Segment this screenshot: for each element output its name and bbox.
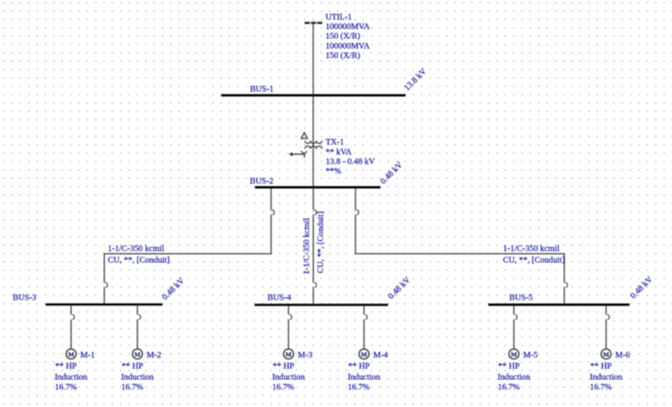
motor M-4 (348, 306, 389, 392)
svg-text:M-2: M-2 (147, 349, 162, 359)
svg-text:1-1/C-350 kcmil: 1-1/C-350 kcmil (108, 243, 165, 253)
wye-ground symbol (292, 151, 307, 158)
wire: utility to BUS-1 (312, 24, 314, 95)
wire: BUS-2 left dropper (104, 188, 271, 303)
svg-text:CU, **, [Conduit]: CU, **, [Conduit] (315, 211, 325, 273)
primary winding (305, 141, 322, 144)
bus BUS-5 (488, 304, 629, 306)
svg-text:13.8 - 0.48 kV: 13.8 - 0.48 kV (326, 156, 376, 166)
cable symbol on middle dropper (top) (314, 210, 316, 215)
svg-text:0.48 kV: 0.48 kV (386, 274, 413, 301)
svg-text:**%: **% (326, 166, 342, 176)
svg-text:BUS-4: BUS-4 (268, 292, 292, 302)
svg-text:M-4: M-4 (373, 349, 388, 359)
wire: BUS-1 to TX-1 to BUS-2 (312, 96, 314, 186)
svg-text:M: M (134, 352, 140, 359)
cable symbol on right feed (565, 283, 567, 288)
bus BUS-1 (221, 94, 405, 96)
cable symbol on left dropper (272, 210, 274, 215)
svg-text:16.7%: 16.7% (55, 382, 77, 392)
svg-text:Induction: Induction (121, 371, 154, 381)
svg-text:TX-1: TX-1 (326, 137, 344, 147)
svg-text:CU, **, [Conduit]: CU, **, [Conduit] (108, 255, 170, 265)
motor M-6 (590, 306, 630, 392)
svg-text:** HP: ** HP (498, 360, 520, 370)
svg-text:100000MVA: 100000MVA (326, 40, 371, 50)
motor M-3 (272, 306, 312, 392)
motor M-5 (498, 306, 538, 392)
svg-text:CU, **, [Conduit]: CU, **, [Conduit] (503, 255, 565, 265)
svg-text:M: M (511, 352, 517, 359)
bus BUS-3 (46, 303, 163, 305)
svg-text:16.7%: 16.7% (121, 382, 143, 392)
svg-text:M-1: M-1 (80, 349, 95, 359)
svg-text:** HP: ** HP (590, 360, 612, 370)
svg-text:1-1/C-350 kcmil: 1-1/C-350 kcmil (503, 243, 560, 253)
svg-text:M: M (361, 352, 367, 359)
utility UTIL-1 symbol (dashed bar) (305, 22, 323, 24)
svg-text:150 (X/R): 150 (X/R) (326, 31, 361, 41)
svg-text:16.7%: 16.7% (348, 382, 370, 392)
svg-text:0.48 kV: 0.48 kV (628, 273, 655, 300)
transformer TX-1 (289, 133, 322, 158)
svg-text:150 (X/R): 150 (X/R) (326, 50, 361, 60)
svg-text:** HP: ** HP (55, 360, 77, 370)
svg-text:** HP: ** HP (273, 360, 295, 370)
delta symbol (301, 133, 307, 139)
svg-text:** HP: ** HP (348, 360, 370, 370)
svg-text:Induction: Induction (348, 371, 381, 381)
svg-text:M-5: M-5 (523, 349, 538, 359)
svg-text:** HP: ** HP (122, 360, 144, 370)
bus BUS-4 (255, 304, 388, 306)
svg-text:UTIL-1: UTIL-1 (326, 11, 352, 21)
svg-text:Induction: Induction (272, 371, 305, 381)
wire: BUS-2 middle dropper to BUS-4 (312, 188, 314, 303)
label UTIL-1 ratings (326, 11, 371, 60)
cable symbol on middle dropper (bottom) (314, 283, 316, 288)
svg-text:Induction: Induction (55, 371, 88, 381)
svg-text:Induction: Induction (590, 371, 623, 381)
svg-text:** kVA: ** kVA (326, 146, 353, 156)
svg-text:100000MVA: 100000MVA (326, 21, 371, 31)
svg-text:M: M (285, 352, 291, 359)
svg-text:BUS-3: BUS-3 (13, 292, 37, 302)
svg-text:M-6: M-6 (615, 349, 630, 359)
svg-text:16.7%: 16.7% (590, 382, 612, 392)
svg-text:0.48 kV: 0.48 kV (378, 159, 405, 186)
motor M-1 (55, 306, 95, 392)
svg-text:BUS-1: BUS-1 (250, 84, 274, 94)
bus BUS-2 (255, 186, 380, 188)
cable symbol on right dropper (357, 210, 359, 215)
svg-text:M: M (68, 352, 74, 359)
svg-text:BUS-2: BUS-2 (250, 176, 274, 186)
svg-text:13.8 kV: 13.8 kV (402, 65, 429, 92)
svg-text:BUS-5: BUS-5 (509, 292, 533, 302)
svg-text:0.48 kV: 0.48 kV (160, 275, 187, 302)
svg-text:16.7%: 16.7% (498, 382, 520, 392)
wire: BUS-2 right dropper (356, 188, 565, 303)
motor M-2 (121, 306, 161, 392)
secondary winding (305, 146, 322, 149)
svg-text:M: M (603, 352, 609, 359)
svg-text:1-1/C-350 kcmil: 1-1/C-350 kcmil (301, 217, 311, 274)
label TX-1 ratings (326, 137, 376, 176)
svg-text:M-3: M-3 (298, 349, 313, 359)
svg-text:16.7%: 16.7% (272, 382, 294, 392)
cable symbol on left feed (105, 283, 107, 288)
svg-text:Induction: Induction (498, 371, 531, 381)
